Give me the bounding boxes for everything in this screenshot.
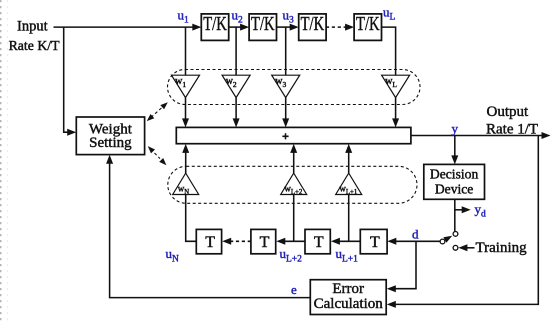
node u1 tap wire (185, 27, 187, 76)
wire d branch down to error calculation (387, 241, 416, 292)
svg-text:T: T (314, 234, 324, 251)
label u1 (178, 7, 190, 25)
label Input (17, 19, 48, 35)
wire input main horizontal (54, 26, 195, 28)
svg-text:T: T (370, 234, 380, 251)
wire w2 to summer (233, 98, 240, 128)
node u2 tap wire (235, 27, 237, 76)
wire T/K1 to T/K2 (229, 24, 249, 31)
svg-text:u1: u1 (178, 7, 190, 25)
wire input branch down to weight setting (64, 27, 76, 136)
svg-text:Rate K/T: Rate K/T (9, 38, 61, 53)
wire y down to decision device (451, 136, 458, 165)
page border dashed line outer (0, 0, 2, 322)
wire dashed T2 to T1 (222, 238, 251, 245)
svg-text:Calculation: Calculation (314, 296, 384, 312)
svg-text:T: T (205, 234, 215, 251)
label y (452, 121, 459, 136)
svg-text:uL: uL (383, 4, 396, 22)
wire e to weight setting (106, 155, 310, 298)
svg-text:uL+2: uL+2 (280, 246, 303, 264)
arrow into T/K 1 (192, 24, 201, 31)
label Output (487, 104, 530, 120)
wire d from switch to T4 (387, 238, 440, 245)
svg-text:Output: Output (487, 104, 530, 120)
wire uN tap up (186, 195, 197, 241)
block T/K 1 (201, 13, 228, 40)
wire T3 to T2 (276, 238, 305, 245)
wire wL+2 to summer (290, 144, 297, 173)
summer block (176, 127, 411, 143)
svg-text:Setting: Setting (89, 135, 132, 151)
wire dashed T/K3 to T/K4 (326, 24, 354, 31)
switch contact circle bottom (training) (453, 245, 458, 250)
switch lever arrow (443, 236, 452, 243)
svg-text:Input: Input (17, 19, 48, 35)
dashed stadium feedforward weights (168, 70, 421, 105)
multiplier wN (173, 173, 199, 196)
wire summer output (411, 132, 551, 139)
block T 1 (196, 229, 221, 253)
wire yd branch (455, 206, 471, 213)
switch pole circle (440, 239, 445, 244)
svg-text:T/K: T/K (356, 13, 380, 35)
svg-text:T/K: T/K (203, 13, 227, 35)
label d (412, 227, 419, 242)
switch contact circle top (yd) (453, 232, 458, 237)
label Rate 1/T (486, 122, 538, 138)
wire w3 to summer (282, 98, 289, 128)
wire w1 to summer (182, 98, 189, 128)
dashed stadium feedback weights (168, 166, 417, 203)
wire wN to summer (182, 144, 189, 173)
dashed double arrow weight setting to feedback weights (148, 146, 167, 165)
wire uL+1 tap up (348, 195, 350, 241)
svg-text:d: d (412, 227, 419, 242)
svg-text:u2: u2 (232, 7, 244, 25)
label uN (166, 246, 180, 264)
wire training input arrow (458, 244, 474, 251)
svg-text:uL+1: uL+1 (336, 246, 359, 264)
multiplier w3 (272, 75, 300, 97)
page border dashed line inner (7, 0, 9, 322)
wire T/K2 to T/K3 (277, 24, 299, 31)
wire T/K4 out corner down (uL tap) (382, 27, 396, 76)
svg-text:y: y (452, 121, 459, 136)
svg-text:T/K: T/K (301, 13, 325, 35)
wire wL+1 to summer (345, 144, 352, 173)
svg-text:Device: Device (435, 182, 474, 197)
svg-text:yd: yd (475, 201, 487, 219)
block T 4 (360, 229, 387, 253)
multiplier wL (382, 75, 410, 97)
block T 2 (251, 229, 276, 253)
svg-text:Rate 1/T: Rate 1/T (486, 122, 538, 138)
label uL+1 (336, 246, 359, 264)
dashed double arrow weight setting to feedforward weights (147, 102, 168, 121)
label Training (476, 240, 528, 256)
multiplier wL+1 (336, 173, 362, 196)
svg-text:e: e (291, 282, 297, 297)
svg-text:T: T (260, 234, 270, 251)
label u3 (283, 7, 295, 25)
wire y branch down to error calculation (387, 136, 539, 308)
label yd (475, 201, 487, 219)
block Decision Device (424, 164, 485, 199)
svg-text:Decision: Decision (430, 167, 479, 182)
svg-text:uN: uN (166, 246, 180, 264)
block T/K 4 (354, 13, 381, 40)
label uL+2 (280, 246, 303, 264)
label e (291, 282, 297, 297)
block Error Calculation (310, 280, 386, 315)
block T 3 (305, 229, 330, 253)
label u2 (232, 7, 244, 25)
multiplier w2 (222, 75, 250, 97)
wire uL+2 tap up (293, 195, 295, 241)
svg-text:Training: Training (476, 240, 528, 256)
node u3 tap wire (285, 27, 287, 76)
wire decision device down to switch (454, 199, 456, 231)
block T/K 2 (249, 13, 276, 40)
svg-text:u3: u3 (283, 7, 295, 25)
svg-text:Error: Error (332, 281, 364, 297)
label uL (383, 4, 396, 22)
multiplier wL+2 (281, 173, 307, 196)
block T/K 3 (299, 13, 326, 40)
multiplier w1 (172, 75, 200, 97)
svg-text:T/K: T/K (251, 13, 275, 35)
wire T4 to T3 (331, 238, 360, 245)
wire wL to summer (392, 98, 399, 128)
block Weight Setting (76, 117, 144, 155)
label Rate K/T (9, 38, 61, 53)
